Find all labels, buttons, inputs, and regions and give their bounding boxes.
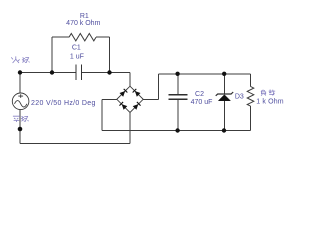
wire: source bottom lead bbox=[19, 109, 21, 143]
wire: bottom AC wire bbox=[20, 143, 130, 145]
net label 负载 (load) hand-drawn glyphs bbox=[261, 90, 275, 96]
net label 火线 (live wire) hand-drawn glyphs bbox=[11, 56, 29, 63]
wire: D3 bottom lead bbox=[223, 101, 225, 131]
svg-text:C2: C2 bbox=[195, 91, 204, 98]
svg-text:D3: D3 bbox=[235, 94, 244, 101]
wire: bottom DC rail bbox=[102, 130, 251, 132]
svg-text:C1: C1 bbox=[72, 45, 81, 52]
wire: source top lead bbox=[19, 73, 21, 94]
svg-text:1 k Ohm: 1 k Ohm bbox=[256, 99, 284, 106]
svg-text:470 uF: 470 uF bbox=[191, 99, 213, 106]
node dot: C2 top bbox=[175, 72, 179, 76]
bridge rectifier D1 diamond outline bbox=[117, 86, 143, 112]
bridge diode top-left bbox=[120, 89, 128, 97]
node dot: R1 left branch bbox=[50, 70, 54, 74]
zener diode D3 cathode bar with bent ends bbox=[216, 92, 234, 96]
ac source plus sign bbox=[18, 94, 23, 98]
wire: R1 left branch vertical bbox=[51, 37, 53, 72]
bridge diode bottom-right bbox=[133, 102, 141, 110]
resistor RL zigzag (load) bbox=[247, 86, 254, 106]
wire: DC positive riser bbox=[157, 74, 159, 100]
node dot: D3 top bbox=[222, 72, 226, 76]
wire: bridge left vertex stub bbox=[102, 98, 117, 100]
wire: load top lead bbox=[250, 74, 252, 87]
svg-text:220 V/50 Hz/0 Deg: 220 V/50 Hz/0 Deg bbox=[31, 100, 96, 107]
wire: R1 right lead bbox=[96, 36, 110, 38]
node dot: source bottom (零线) bbox=[18, 127, 23, 132]
svg-text:1 uF: 1 uF bbox=[70, 53, 84, 60]
wire: R1 right branch vertical bbox=[109, 37, 111, 72]
wire: top-left rail from C1 right plate to bridge riser bbox=[81, 72, 130, 74]
node dot: C2 bottom bbox=[175, 128, 179, 132]
wire: D3 top lead bbox=[223, 74, 225, 94]
wire: R1 left lead bbox=[52, 36, 69, 38]
svg-text:470 k Ohm: 470 k Ohm bbox=[66, 20, 100, 27]
capacitor C2 plates bbox=[168, 95, 187, 100]
bridge diode top-right bbox=[133, 89, 141, 97]
wire: top-left rail from source top to C1 left plate bbox=[20, 72, 76, 74]
wire: load bottom lead bbox=[250, 106, 252, 130]
wire: C2 bottom lead bbox=[177, 99, 179, 130]
ac source sine wave bbox=[15, 101, 27, 107]
wire: top-right DC rail bbox=[158, 73, 250, 75]
resistor R1 zigzag bbox=[69, 34, 96, 41]
wire: riser from rail down to bridge top vertex bbox=[129, 73, 131, 87]
wire: C2 top lead bbox=[177, 74, 179, 94]
node dot: source top / rail bbox=[18, 70, 22, 74]
node dot: R1 right branch bbox=[107, 70, 111, 74]
capacitor C1 plates bbox=[76, 65, 81, 80]
wire: bridge right vertex stub bbox=[143, 98, 158, 100]
wire: riser from AC bottom wire to bridge bottom vertex bbox=[129, 113, 131, 144]
ac source V1 circle bbox=[12, 93, 29, 110]
wire: DC negative drop bbox=[101, 99, 103, 130]
node dot: D3 bottom bbox=[222, 128, 226, 132]
zener diode D3 triangle bbox=[218, 95, 230, 101]
bridge diode bottom-left bbox=[119, 102, 127, 110]
net label 零线 (neutral wire) hand-drawn glyphs bbox=[13, 116, 29, 122]
